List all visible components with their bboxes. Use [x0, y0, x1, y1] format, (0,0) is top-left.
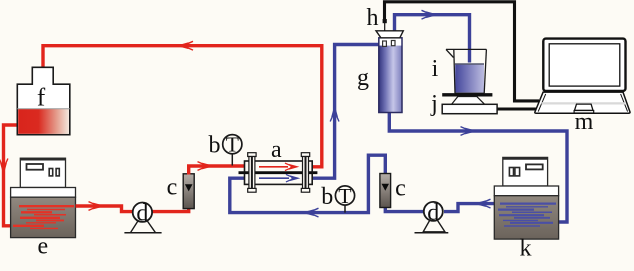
wire: red from pump d1 to rotameter c1 bottom	[151, 207, 189, 212]
rotameter c1 float (down triangle)	[185, 184, 193, 191]
wire: red from rotameter c1 top to heat exchanger a inlet	[189, 166, 245, 175]
svg-text:e: e	[37, 233, 48, 259]
wire: blue exchanger a cold outlet up to column g inlet	[311, 45, 379, 179]
beaker i liquid surface line	[455, 63, 484, 65]
pump d1 stand	[130, 214, 155, 233]
column g port 1	[383, 41, 387, 46]
wire: blue from bath k outlet to pump d2	[444, 204, 494, 212]
bath k cooling coil (blue)	[498, 204, 556, 226]
laptop m screen panel	[549, 44, 620, 86]
arrow: cold flow right inside exchanger bottom channel	[259, 174, 300, 181]
arrow: flow left on top red return wire	[176, 41, 193, 50]
arrow: flow right on column g drain wire	[461, 127, 478, 136]
signal cable: balance j to laptop m	[496, 107, 539, 110]
beaker i liquid	[455, 64, 484, 93]
bath k tank body	[494, 196, 558, 239]
balance j base box	[442, 104, 497, 113]
bath k rim band	[494, 186, 558, 196]
beaker i glass outline	[446, 49, 486, 93]
heat exchanger a right flange pair with bolt studs	[301, 153, 309, 193]
svg-text:j: j	[430, 91, 438, 117]
balance j platform	[442, 93, 492, 96]
thermometer b1 stem	[231, 154, 233, 166]
svg-text:T: T	[226, 133, 239, 157]
svg-text:g: g	[357, 65, 369, 91]
wire: blue from pump d2 to rotameter c2 bottom	[385, 207, 424, 212]
column g body (packed absorption column)	[379, 38, 402, 113]
tank f liquid surface line	[17, 108, 70, 110]
bath k temperature controller head	[503, 157, 548, 186]
thermometer b2 dial	[335, 186, 354, 205]
heat exchanger a left flange pair with bolt studs	[248, 153, 256, 193]
arrow: flow down on left red wire	[0, 159, 8, 176]
pump d2 body	[424, 202, 443, 221]
svg-text:k: k	[520, 236, 532, 262]
arrow: hot flow right inside exchanger top channel	[259, 163, 299, 170]
arrow: flow left bath k to pump d2	[474, 199, 491, 208]
tank f (hot liquid reservoir bottle)	[17, 67, 70, 134]
svg-text:b: b	[321, 184, 333, 210]
column g top cap	[376, 31, 403, 38]
sensor fitting h	[383, 19, 387, 23]
arrow: flow up on blue riser wire	[330, 105, 339, 122]
arrow: flow right bath e to pump d1	[89, 202, 106, 211]
svg-text:d: d	[136, 201, 148, 227]
wire: blue from column g bottom right then down into bath k	[389, 111, 567, 222]
laptop m touchpad	[575, 104, 594, 110]
heat exchanger a shell	[245, 161, 313, 184]
svg-text:h: h	[367, 5, 379, 31]
svg-text:f: f	[37, 85, 46, 112]
svg-text:b: b	[209, 133, 221, 159]
rotameter c2 float (down triangle)	[382, 184, 390, 191]
wire: hot red return, exchanger right end up and across top to tank f neck	[43, 46, 322, 167]
balance j pedestal	[452, 97, 485, 105]
svg-text:c: c	[395, 176, 406, 202]
svg-text:T: T	[338, 184, 351, 208]
svg-text:c: c	[167, 175, 178, 201]
bath e rim band	[11, 188, 76, 198]
laptop m base	[535, 92, 630, 113]
bath e tank body	[11, 197, 76, 237]
bath e temperature controller head	[20, 158, 65, 187]
column g headspace	[380, 39, 402, 46]
svg-text:d: d	[427, 200, 439, 226]
wire: blue loop rotameter c2 top, left, down, bottom line to exchanger a cold inlet	[230, 155, 385, 212]
thermometer b2 stem	[344, 204, 346, 213]
thermometer b1 dial	[223, 135, 242, 154]
arrow: flow right into exchanger hot side	[198, 162, 215, 171]
pump d1 body	[133, 203, 152, 222]
column g port 2	[391, 41, 395, 46]
svg-text:m: m	[575, 109, 594, 135]
bath e heating coil (red)	[13, 206, 74, 228]
wire: red from tank f bottom, left then down into bath e coil	[4, 125, 21, 226]
laptop m screen bezel	[543, 39, 625, 91]
arrow: flow right on column g outlet wire	[422, 10, 439, 19]
rotameter c2 body	[380, 174, 391, 208]
wire: blue from column g top outlet right and down into beaker i	[395, 15, 470, 63]
pump d2 stand	[423, 214, 445, 232]
svg-text:a: a	[271, 137, 282, 163]
signal cable: sensor h up over to the right and down to laptop m	[385, 2, 540, 101]
tank f red liquid	[18, 109, 69, 134]
svg-text:i: i	[432, 56, 439, 82]
arrow: flow left on bottom blue wire	[302, 208, 319, 217]
wire: red from bath e outlet to pump d1	[76, 206, 135, 212]
rotameter c1 body	[183, 174, 194, 209]
heat exchanger a inner tube	[239, 171, 318, 174]
